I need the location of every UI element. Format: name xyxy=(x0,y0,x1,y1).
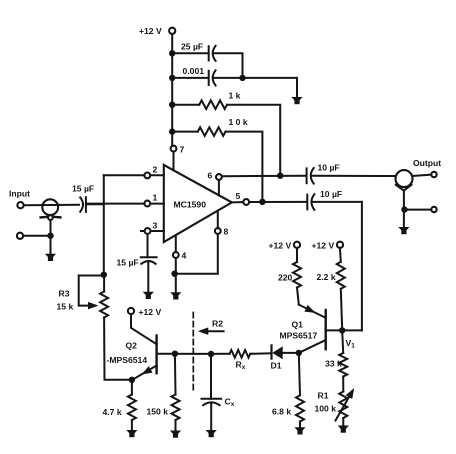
ground (4.7k) xyxy=(126,430,137,437)
ground (output jack) xyxy=(398,227,409,234)
dashed boundary line xyxy=(192,313,194,392)
terminal Input (shield) xyxy=(17,233,51,239)
node pin4 junction xyxy=(171,271,177,277)
svg-text:+12 V: +12 V xyxy=(139,307,162,317)
svg-text:2.2 k: 2.2 k xyxy=(317,272,336,282)
svg-text:8: 8 xyxy=(224,227,229,237)
node rail-10k junction xyxy=(169,128,175,134)
resistor 6.8k xyxy=(272,353,304,427)
capacitor Cx xyxy=(202,354,235,430)
svg-text:6.8 k: 6.8 k xyxy=(272,407,291,417)
wire 0.001 row left xyxy=(172,77,208,79)
wire jack shield down xyxy=(50,220,52,254)
svg-text:R3: R3 xyxy=(59,289,70,299)
svg-text:100 k: 100 k xyxy=(315,404,337,414)
node Q2 emitter junction xyxy=(129,377,135,383)
node rail-25uF junction xyxy=(169,50,175,56)
svg-text:R1: R1 xyxy=(318,391,329,401)
node 25uF-0.001 junction xyxy=(239,75,245,81)
svg-text:-MPS6514: -MPS6514 xyxy=(107,355,148,365)
node R3 top junction xyxy=(101,272,107,278)
terminal +12V supply (top) xyxy=(139,26,175,36)
wire 1k row left xyxy=(172,104,199,106)
pin 8 xyxy=(215,211,229,274)
resistor 4.7k xyxy=(103,380,136,430)
terminal Input (hot) xyxy=(9,189,30,209)
ground (R1) xyxy=(338,426,349,433)
transistor Q2 MPS6514 xyxy=(107,336,157,379)
pin 7 xyxy=(171,145,185,171)
wire pin5 row xyxy=(250,201,308,203)
ground (top right) xyxy=(291,97,302,104)
wire pin8 to pin4 line xyxy=(174,273,218,275)
svg-text:1 0 k: 1 0 k xyxy=(229,117,248,127)
pin 3 xyxy=(141,221,164,234)
wire 10k row left xyxy=(172,131,198,133)
svg-text:+12 V: +12 V xyxy=(269,241,292,251)
op-amp U1 MC1590 xyxy=(164,165,232,242)
terminal +12V (220 ohm) xyxy=(269,241,301,251)
svg-text:Q2: Q2 xyxy=(126,341,138,351)
wire Q1 base xyxy=(326,329,362,331)
wire node to Rx xyxy=(211,353,230,355)
svg-text:7: 7 xyxy=(180,145,185,155)
ground (under 15uF) xyxy=(143,292,154,299)
wire 25uF row right xyxy=(214,53,243,78)
svg-text:25 µF: 25 µF xyxy=(181,42,203,52)
pin 5 xyxy=(232,191,249,205)
wire R3 wiper loop xyxy=(79,276,104,306)
wire 25uF row left xyxy=(172,52,208,54)
svg-text:1: 1 xyxy=(153,193,158,203)
node output shield junction xyxy=(401,206,407,212)
pin 1 xyxy=(86,193,164,207)
transistor Q1 MPS6517 xyxy=(280,305,326,353)
svg-text:5: 5 xyxy=(236,191,241,201)
pin 4 xyxy=(173,235,187,292)
svg-text:0.001: 0.001 xyxy=(183,66,205,76)
node pin6 feedback junction xyxy=(277,173,283,179)
node Cx junction xyxy=(208,351,214,357)
svg-text:+12 V: +12 V xyxy=(312,241,335,251)
capacitor 0.001 xyxy=(183,66,216,86)
wire output shield down xyxy=(403,191,405,227)
svg-text:33 k: 33 k xyxy=(325,359,342,369)
resistor R1 100k (variable) xyxy=(315,388,355,426)
wire Q2 base xyxy=(157,353,211,355)
terminal +12V (Q2) xyxy=(128,307,162,317)
terminal +12V (2.2k) xyxy=(312,241,344,251)
node Q1 base junction xyxy=(339,327,345,333)
node rail-0.001 junction xyxy=(169,75,175,81)
arrow R2 xyxy=(198,319,224,335)
capacitor 25uF xyxy=(181,42,216,61)
capacitor 10uF (lower) xyxy=(307,189,362,210)
output jack J2 xyxy=(396,158,442,191)
wire input to jack xyxy=(25,204,79,207)
wire R3 bottom xyxy=(104,318,132,380)
svg-text:150 k: 150 k xyxy=(147,407,169,417)
ground (Cx) xyxy=(206,430,217,437)
svg-text:15 µF: 15 µF xyxy=(72,184,94,194)
node input shield junction xyxy=(47,233,53,239)
svg-text:3: 3 xyxy=(153,221,158,231)
wire pin6 row xyxy=(222,175,306,177)
svg-text:4: 4 xyxy=(182,251,187,261)
svg-text:Q1: Q1 xyxy=(292,320,304,330)
ground (6.8k) xyxy=(294,427,305,434)
ground (under pin 4) xyxy=(170,292,181,299)
wire jack to output terminal xyxy=(413,175,430,176)
pin 2 xyxy=(104,165,164,179)
diode D1 xyxy=(271,345,283,370)
terminal Output (hot) xyxy=(431,172,436,177)
node Q1 collector junction xyxy=(296,350,302,356)
wire 1k row right xyxy=(227,105,280,173)
wire +12V rail vertical xyxy=(171,35,173,145)
svg-text:220: 220 xyxy=(278,273,293,283)
node 150k junction xyxy=(172,351,178,357)
ground (input jack) xyxy=(45,254,56,261)
wire Rx to D1 xyxy=(250,352,271,355)
svg-text:6: 6 xyxy=(208,171,213,181)
capacitor 15uF (input coupling) xyxy=(72,184,104,212)
wire D1 to Q1 node xyxy=(283,352,299,354)
wire pin5 cap to Q1 base xyxy=(361,202,363,331)
svg-text:10 µF: 10 µF xyxy=(318,163,340,173)
resistor 1k xyxy=(199,91,240,110)
resistor 33k xyxy=(325,330,347,391)
ground (150k) xyxy=(170,431,181,438)
svg-text:10 µF: 10 µF xyxy=(320,189,342,199)
svg-text:15 k: 15 k xyxy=(57,302,74,312)
wire input node vertical xyxy=(103,175,105,275)
capacitor 10uF (upper) xyxy=(307,163,395,184)
wire 10k row right xyxy=(226,132,263,199)
input jack J1 xyxy=(41,199,61,220)
resistor 150k xyxy=(147,354,180,431)
node pin5 feedback junction xyxy=(259,199,265,205)
svg-text:Input: Input xyxy=(9,189,30,199)
resistor 2.2k xyxy=(317,249,345,330)
svg-text:15 µF: 15 µF xyxy=(117,258,139,268)
svg-text:+12 V: +12 V xyxy=(139,26,162,36)
svg-text:MC1590: MC1590 xyxy=(174,200,207,210)
resistor Rx xyxy=(230,350,251,371)
terminal Output (shield) xyxy=(431,207,436,212)
resistor 220 xyxy=(278,249,301,305)
svg-text:R2: R2 xyxy=(212,319,223,329)
svg-text:D1: D1 xyxy=(271,361,282,371)
svg-text:MPS6517: MPS6517 xyxy=(280,331,318,341)
wire 0.001 row right to ground xyxy=(214,78,298,97)
svg-text:Output: Output xyxy=(413,158,441,168)
resistor R3 15k (pot) xyxy=(57,275,109,318)
wiper arrow R3 xyxy=(88,302,99,310)
svg-text:1 k: 1 k xyxy=(229,91,241,101)
label V1 xyxy=(346,338,356,350)
pin 6 xyxy=(208,171,222,196)
node rail-1k junction xyxy=(169,102,175,108)
resistor 10k xyxy=(198,117,248,136)
wire Q2 collector xyxy=(131,315,156,344)
capacitor 15uF (pin 3 bypass) xyxy=(117,235,157,292)
svg-text:4.7 k: 4.7 k xyxy=(103,407,122,417)
svg-text:2: 2 xyxy=(153,165,158,175)
wire shield to terminal xyxy=(405,209,431,211)
